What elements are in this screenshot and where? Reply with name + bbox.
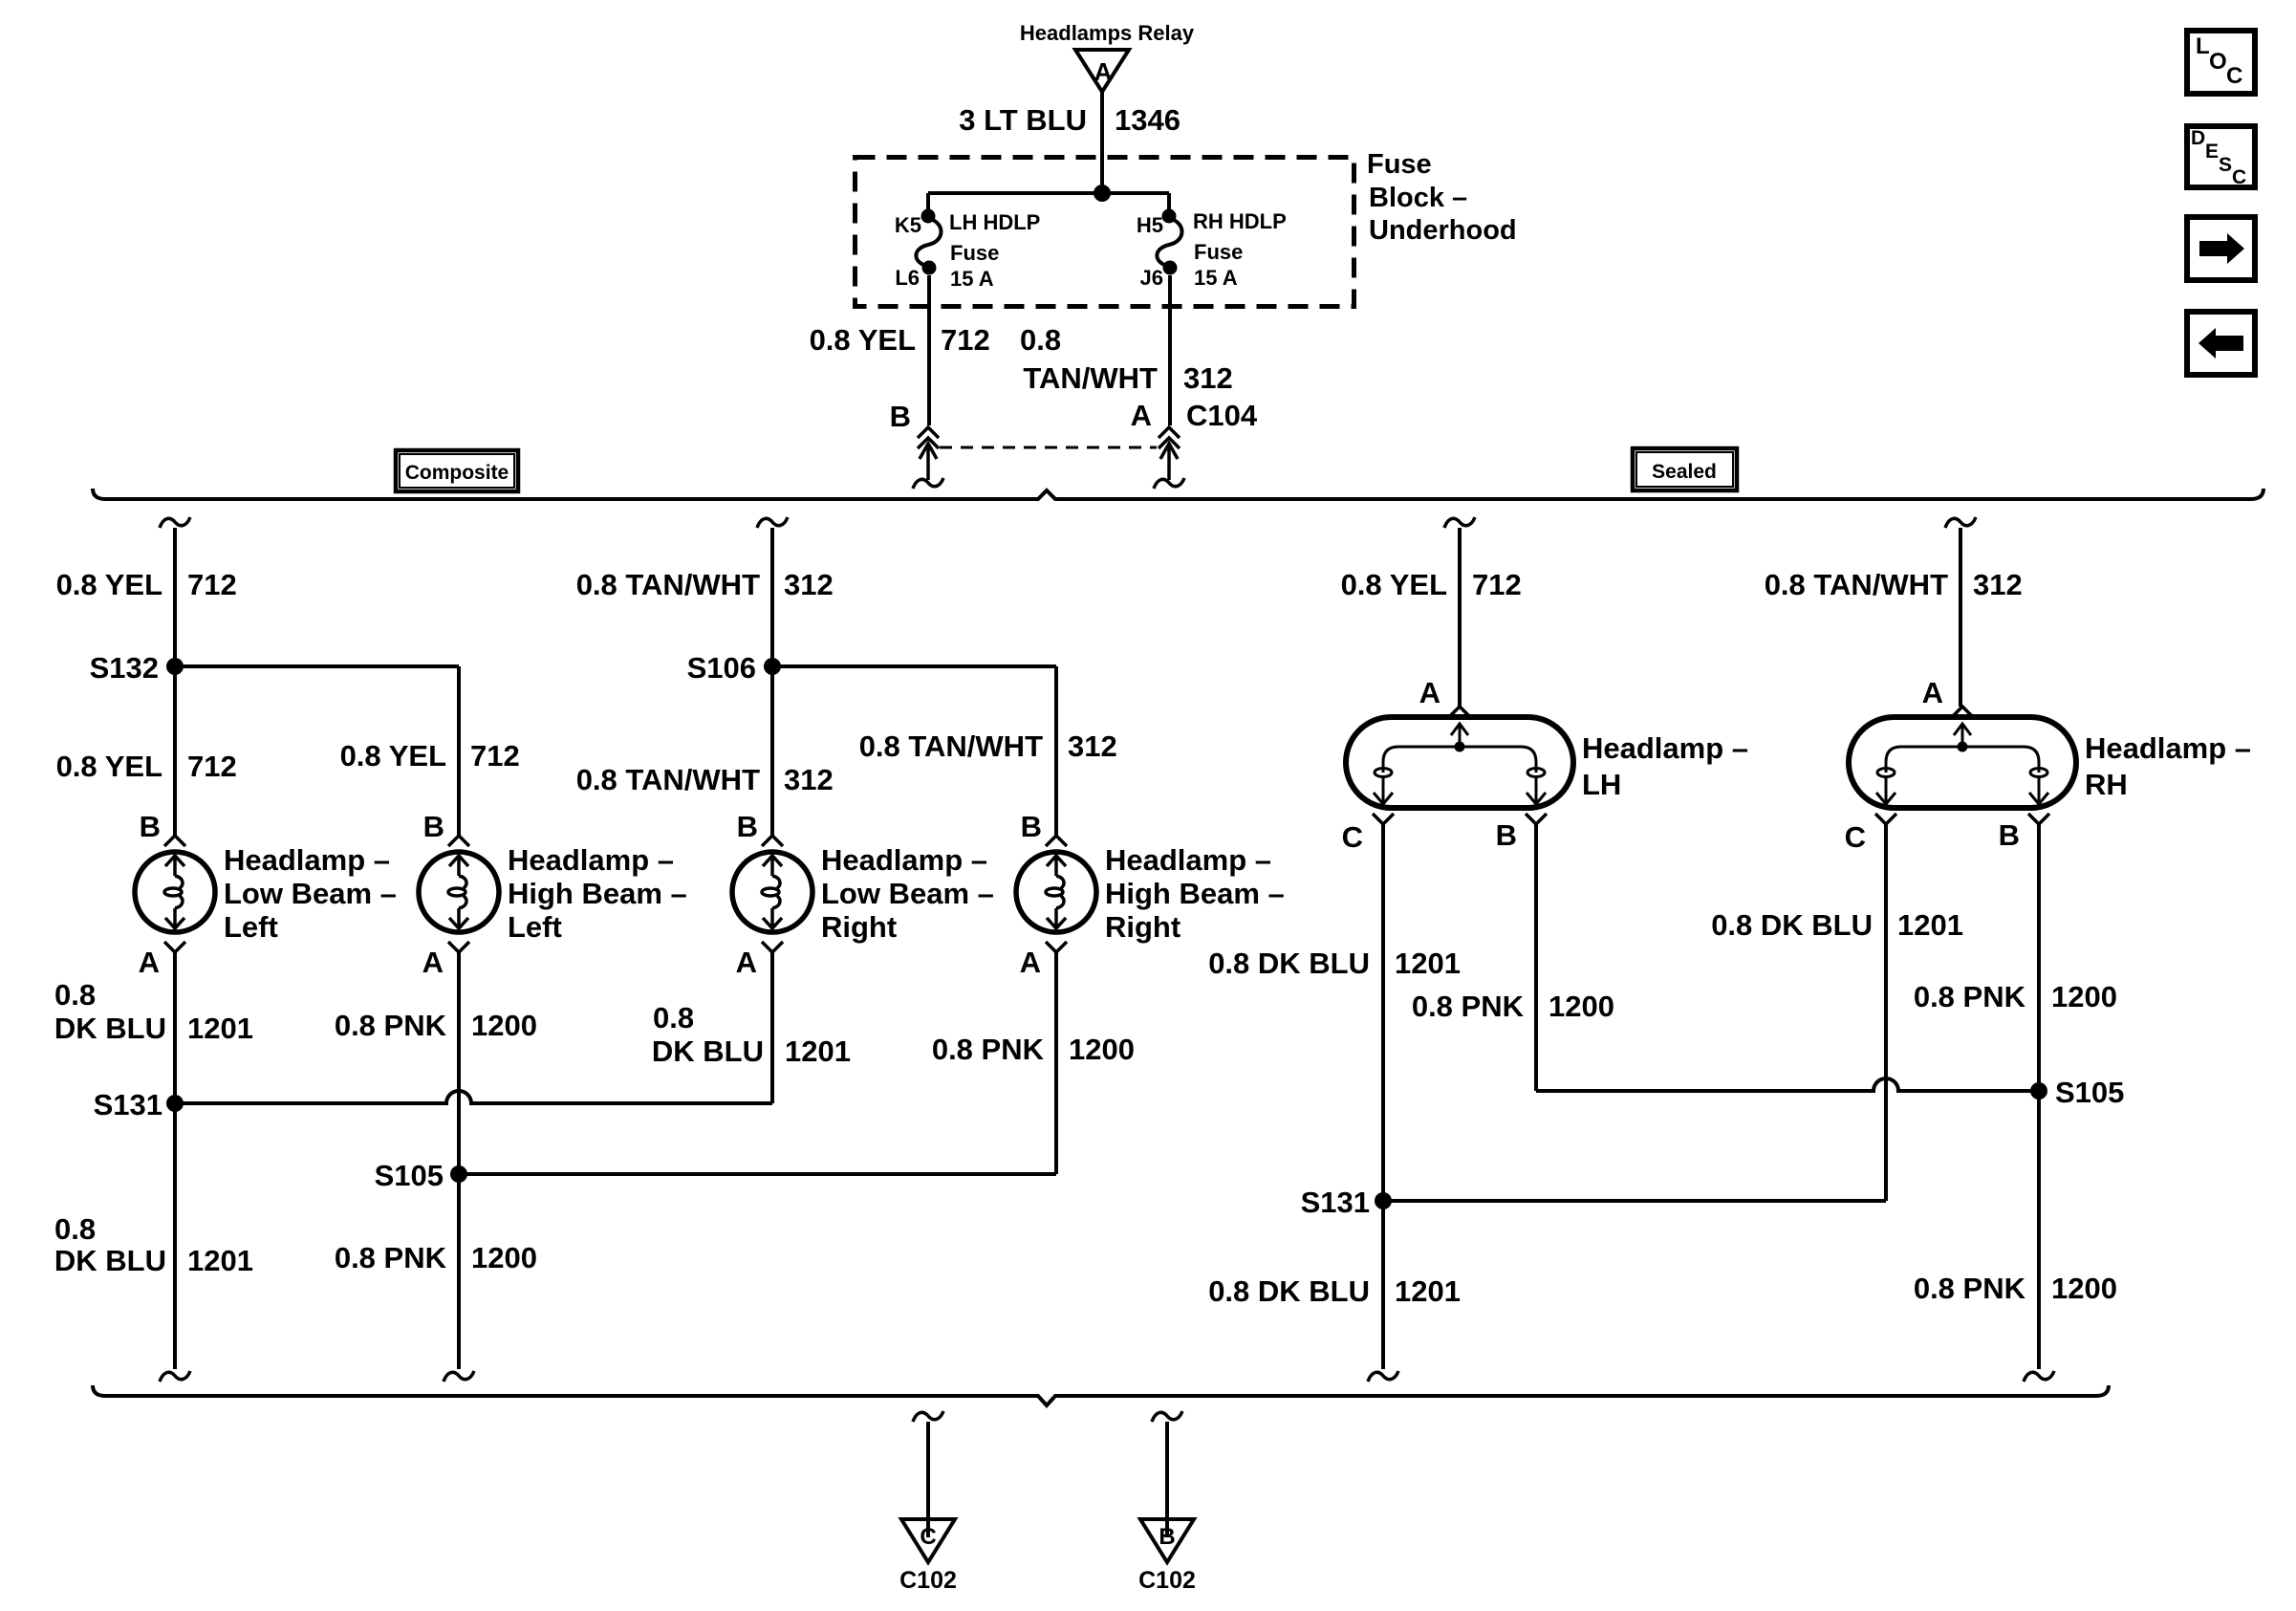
value label "LH HDLP Fuse 15 A" [949,210,1040,291]
svg-text:D: D [2191,127,2205,149]
wire break at bottom of DK BLU wire [160,1371,190,1382]
svg-text:0.8 YEL: 0.8 YEL [56,750,162,783]
fuse block underhood dashed box [856,158,1354,307]
svg-text:B: B [890,400,911,433]
wire label "712" [1472,568,1522,601]
pin label "A" of sealed LH headlamp [1419,676,1440,709]
svg-text:1200: 1200 [471,1241,537,1274]
svg-text:High Beam –: High Beam – [508,877,687,910]
wire label "712" [187,568,237,601]
wire 0.8 YEL 712 down to S132 [173,528,177,666]
svg-text:Underhood: Underhood [1369,215,1517,246]
sealed beam unit: Headlamp - RH [1849,717,2076,808]
option label box "Sealed" [1633,448,1737,490]
svg-text:312: 312 [784,763,834,796]
svg-text:712: 712 [470,739,520,773]
svg-text:A: A [139,946,160,979]
component label "Headlamp – Low Beam – Right" [821,843,994,944]
svg-text:L6: L6 [895,266,920,290]
splice S105 (composite) [450,1165,467,1183]
svg-text:TAN/WHT: TAN/WHT [1023,361,1158,395]
connector chevron at pin B x=1105 [1046,836,1067,846]
svg-text:0.8 PNK: 0.8 PNK [1914,1272,2026,1305]
wire label "1201" [1897,908,1963,942]
pin H5 terminal dot [1162,209,1177,224]
connector label "C102" [1138,1567,1196,1594]
svg-text:A: A [1094,57,1113,86]
pin label "C" of sealed RH headlamp [1845,820,1866,854]
wire label "312" [784,763,834,796]
svg-text:Block –: Block – [1369,183,1467,213]
wire label "0.8 DK BLU" [1208,1274,1370,1308]
wire 0.8 TAN/WHT 312 from fuse J6 to connector A [1168,275,1172,425]
wire 0.8 PNK 1200 from S105 to C102 [457,1174,461,1369]
svg-text:312: 312 [1183,361,1233,395]
pin label "B" [890,400,911,433]
wire break at bottom of sealed DK BLU wire [1368,1371,1398,1382]
svg-text:C102: C102 [1138,1567,1196,1594]
svg-text:1201: 1201 [1395,1274,1461,1308]
svg-text:S131: S131 [1301,1186,1370,1219]
svg-text:0.8: 0.8 [1020,323,1061,357]
pin label "L6" [895,266,920,290]
svg-text:C: C [1342,820,1363,854]
wire 0.8 PNK 1200 from sealed S105 to C102 [2037,1091,2041,1369]
component label "Headlamp - LH" [1582,731,1748,801]
connector chevron at pin A x=183 [164,942,185,952]
ground-style connector triangle B (C102) [1140,1519,1194,1562]
splice label "S131" [1301,1186,1370,1219]
pin label "B" of LowLeft lamp [140,810,161,843]
svg-text:DK BLU: DK BLU [652,1034,764,1068]
wire label "312" [1973,568,2023,601]
wire label "1201" [187,1012,253,1045]
wire: S105 tie to high beam right [459,1172,1056,1176]
svg-text:S106: S106 [687,651,756,685]
wire: S106 branch to high beam right [772,666,1056,836]
wire label "1201" [1395,1274,1461,1308]
sealed beam unit: Headlamp - LH [1346,717,1573,808]
component label "Headlamp – Low Beam – Left" [224,843,397,944]
wire 0.8 PNK 1200 sealed LH pin B to S105 [1534,824,1538,1091]
svg-text:0.8 TAN/WHT: 0.8 TAN/WHT [859,729,1043,763]
svg-text:B: B [1159,1524,1175,1550]
wire 0.8 DK BLU 1201 from S131 to C102 [173,1103,177,1369]
svg-text:S131: S131 [94,1088,162,1121]
button "DESC" [2187,126,2255,188]
fuse F-LH HDLP element [916,218,941,267]
svg-text:DK BLU: DK BLU [54,1012,166,1045]
svg-text:0.8: 0.8 [653,1001,694,1034]
wire break above C102 cavity C [913,1411,943,1422]
bulb: Headlamp Low Beam – Right [732,852,812,932]
pin label "K5" [895,213,921,237]
wire label "712" [470,739,520,773]
svg-text:712: 712 [1472,568,1522,601]
wire label "0.8 YEL" [810,323,916,357]
svg-text:Left: Left [508,910,562,944]
wire 0.8 YEL 712 from S132 to low beam left [173,666,177,836]
svg-text:B: B [1496,818,1517,852]
svg-text:L: L [2196,33,2210,59]
wire label "0.8 TAN/WHT" [859,729,1043,763]
svg-text:O: O [2209,49,2227,75]
pin label "B" of LowRight lamp [737,810,758,843]
wire 0.8 PNK 1200 from high beam left to S105 [457,952,461,1174]
svg-text:C102: C102 [899,1567,957,1594]
wire: drop to LH HDLP fuse pin K5 [926,193,930,214]
svg-text:C: C [1845,820,1866,854]
connector chevron at sealed RH pin C [1875,814,1896,824]
svg-text:H5: H5 [1137,213,1163,237]
pin label "A" of sealed RH headlamp [1922,676,1943,709]
wire 0.8 YEL 712 to sealed LH headlamp [1458,528,1462,707]
pin label "A" of LowLeft lamp [139,946,160,979]
svg-text:A: A [1922,676,1943,709]
svg-text:S105: S105 [2055,1076,2124,1109]
svg-text:Composite: Composite [405,462,509,484]
connector chevron at sealed LH pin A [1449,707,1470,717]
svg-text:0.8 YEL: 0.8 YEL [56,568,162,601]
pin label "B" of sealed RH headlamp [1999,818,2020,852]
svg-text:0.8 DK BLU: 0.8 DK BLU [1208,947,1370,980]
svg-text:712: 712 [187,568,237,601]
svg-text:Right: Right [821,910,897,944]
svg-text:312: 312 [784,568,834,601]
pin label "B" of sealed LH headlamp [1496,818,1517,852]
wire 0.8 DK BLU 1201 sealed LH pin C to S131 [1381,824,1385,1201]
svg-text:0.8 DK BLU: 0.8 DK BLU [1711,908,1873,942]
svg-text:A: A [1020,946,1041,979]
svg-text:0.8 DK BLU: 0.8 DK BLU [1208,1274,1370,1308]
wire break (resume) on 712 YEL branch [160,517,190,528]
svg-text:A: A [1419,676,1440,709]
svg-text:Low Beam –: Low Beam – [821,877,994,910]
connector chevron at pin A x=480 [448,942,469,952]
svg-text:K5: K5 [895,213,921,237]
wire label "312" [1183,361,1233,395]
svg-text:A: A [736,946,757,979]
button "next" (right arrow) [2187,217,2255,280]
svg-text:A: A [422,946,444,979]
component label "Headlamp – High Beam – Left" [508,843,687,944]
wire 0.8 DK BLU 1201 from low beam right down [770,952,774,1103]
svg-text:E: E [2205,141,2219,163]
wire label "0.8 PNK" [1412,990,1525,1023]
wire 0.8 DK BLU 1201 from sealed S131 to C102 [1381,1201,1385,1369]
wire: drop to RH HDLP fuse pin H5 [1167,193,1171,214]
harness brace (bottom) [93,1385,2109,1405]
wire label "712" [187,750,237,783]
pin L6 terminal dot [922,261,937,275]
wire label "0.8 PNK" [335,1241,447,1274]
svg-text:Headlamp –: Headlamp – [508,843,674,877]
wire 0.8 DK BLU 1201 from low beam left to S131 [173,952,177,1103]
button "back" (left arrow) [2187,312,2255,375]
svg-text:RH: RH [2085,768,2128,801]
wire label "1200" [1069,1033,1135,1066]
connector C104 dashed boundary [940,446,1157,449]
wire label "0.8 DK BLU" [1711,908,1873,942]
svg-text:15 A: 15 A [950,267,994,291]
button "LOC" [2187,31,2255,94]
connector label "C104" [1186,399,1258,432]
wire label "1200" [2051,980,2117,1013]
svg-text:LH HDLP: LH HDLP [949,210,1040,234]
bulb: Headlamp High Beam – Left [419,852,499,932]
svg-text:1200: 1200 [1069,1033,1135,1066]
svg-text:0.8 PNK: 0.8 PNK [1412,990,1525,1023]
svg-text:0.8 PNK: 0.8 PNK [932,1033,1045,1066]
svg-text:0.8 PNK: 0.8 PNK [335,1009,447,1042]
connector chevron at pin B x=183 [164,836,185,846]
pin J6 terminal dot [1163,261,1178,275]
svg-text:C104: C104 [1186,399,1258,432]
pin K5 terminal dot [921,209,936,224]
svg-text:J6: J6 [1140,266,1163,290]
splice label "S132" [90,651,159,685]
svg-text:B: B [140,810,161,843]
bulb: Headlamp High Beam – Right [1016,852,1096,932]
pin label "A" of LowRight lamp [736,946,757,979]
wire label "3 LT BLU" [959,103,1087,137]
wire label "0.8 PNK" [1914,980,2026,1013]
svg-text:DK BLU: DK BLU [54,1244,166,1277]
svg-text:0.8 TAN/WHT: 0.8 TAN/WHT [576,763,760,796]
svg-text:Fuse: Fuse [1194,240,1243,264]
svg-text:15 A: 15 A [1194,266,1238,290]
svg-text:RH HDLP: RH HDLP [1193,209,1287,233]
svg-text:1346: 1346 [1115,103,1180,137]
connector chevron at pin B x=808 [762,836,783,846]
wire label "0.8 TAN/WHT" [1765,568,1948,601]
wire label "0.8 YEL" [56,568,162,601]
wire 0.8 DK BLU 1201 sealed RH pin C down [1884,824,1888,1201]
wire 0.8 PNK 1200 from high beam right down [1054,952,1058,1174]
splice S106 [764,658,781,675]
wire label "0.8 PNK" [1914,1272,2026,1305]
wire label "1201" [785,1034,851,1068]
connector chevron at pin A x=1105 [1046,942,1067,952]
splice S131 (sealed) [1375,1192,1392,1209]
wire label "0.8 / DK BLU" [54,1212,166,1277]
svg-text:0.8 YEL: 0.8 YEL [810,323,916,357]
svg-text:0.8 YEL: 0.8 YEL [1341,568,1447,601]
component label "Headlamp – High Beam – Right" [1105,843,1285,944]
splice label "S106" [687,651,756,685]
svg-text:S132: S132 [90,651,159,685]
wire break (resume) on sealed 312 TAN/WHT [1945,517,1976,528]
component label "Headlamp - RH" [2085,731,2251,801]
power triangle A (Headlamps Relay) [1075,50,1129,92]
wire label "0.8 PNK" [335,1009,447,1042]
pin label "A" of HighRight lamp [1020,946,1041,979]
wire break at bottom of sealed PNK wire [2024,1371,2054,1382]
svg-text:C: C [2232,166,2246,188]
node: splice in fuse block feed [1094,185,1111,202]
svg-text:0.8: 0.8 [54,1212,96,1246]
wire label "1346" [1115,103,1180,137]
wire label "1200" [471,1241,537,1274]
fuse F-RH HDLP element [1157,218,1181,267]
relay label "Headlamps Relay" [1020,21,1195,45]
wire 0.8 TAN/WHT 312 from S106 to low beam right [770,666,774,836]
svg-text:712: 712 [187,750,237,783]
ground-style connector triangle C (C102) [901,1519,955,1562]
wire label "0.8 YEL" [56,750,162,783]
svg-text:1200: 1200 [471,1009,537,1042]
svg-text:Fuse: Fuse [1367,149,1432,180]
harness brace (top) [93,489,2264,499]
svg-text:1201: 1201 [1395,947,1461,980]
connector chevron at sealed RH pin A [1952,707,1973,717]
svg-text:0.8 TAN/WHT: 0.8 TAN/WHT [576,568,760,601]
svg-text:A: A [1131,399,1152,432]
wire break above C102 cavity B [1152,1411,1182,1422]
wire: fuse block bus [928,191,1169,195]
wire break at bottom of PNK wire [444,1371,474,1382]
wire to connector C102 cavity B [1165,1422,1169,1537]
splice S132 [166,658,184,675]
svg-text:3 LT BLU: 3 LT BLU [959,103,1087,137]
wire: S131 tie to low beam right (hop over x=480) [175,1091,772,1103]
svg-text:B: B [737,810,758,843]
wire label "0.8 YEL" [340,739,446,773]
wire label "1201" [1395,947,1461,980]
connector chevron at sealed RH pin B [2028,814,2049,824]
splice label "S105" [2055,1076,2124,1109]
wire label "0.8 TAN/WHT" [576,763,760,796]
wire label "1200" [471,1009,537,1042]
connector C104 cavity A symbol [1154,427,1184,489]
wire 0.8 YEL 712 from fuse L6 to connector B [927,275,931,425]
svg-text:1200: 1200 [1549,990,1614,1023]
connector chevron at sealed LH pin B [1526,814,1547,824]
pin label "B" of HighRight lamp [1021,810,1042,843]
pin label "A" [1131,399,1152,432]
svg-text:1200: 1200 [2051,980,2117,1013]
svg-text:B: B [1021,810,1042,843]
wire: S132 branch to high beam left [175,666,459,836]
svg-text:B: B [423,810,444,843]
svg-text:Headlamp –: Headlamp – [1105,843,1271,877]
splice S131 (composite) [166,1095,184,1112]
svg-text:0.8 TAN/WHT: 0.8 TAN/WHT [1765,568,1948,601]
splice S105 (sealed) [2030,1082,2047,1099]
svg-text:1201: 1201 [187,1012,253,1045]
pin label "B" of HighLeft lamp [423,810,444,843]
svg-text:Headlamp –: Headlamp – [2085,731,2251,765]
pin label "A" of HighLeft lamp [422,946,444,979]
svg-text:B: B [1999,818,2020,852]
wire label "1200" [2051,1272,2117,1305]
wire label "312" [784,568,834,601]
wire: sealed S131 tie to RH pin C [1383,1199,1886,1203]
svg-text:High Beam –: High Beam – [1105,877,1285,910]
wire 0.8 PNK 1200 sealed RH pin B to S105 [2037,824,2041,1091]
svg-text:1201: 1201 [785,1034,851,1068]
wire label "1200" [1549,990,1614,1023]
svg-text:1201: 1201 [1897,908,1963,942]
connector chevron at pin A x=808 [762,942,783,952]
wire label "0.8 / DK BLU" [54,978,166,1045]
svg-text:312: 312 [1973,568,2023,601]
svg-text:Headlamp –: Headlamp – [1582,731,1748,765]
option label box "Composite" [396,450,518,491]
svg-text:C: C [920,1524,936,1550]
splice label "S131" [94,1088,162,1121]
wire break (resume) on sealed 712 YEL [1444,517,1475,528]
wire 3 LT BLU 1346 from relay to fuse block [1100,92,1104,193]
pin label "J6" [1140,266,1163,290]
wire 0.8 TAN/WHT 312 down to S106 [770,528,774,666]
wire label "0.8 PNK" [932,1033,1045,1066]
wire label "312" [1068,729,1117,763]
svg-text:0.8 PNK: 0.8 PNK [335,1241,447,1274]
pin label "C" of sealed LH headlamp [1342,820,1363,854]
svg-text:312: 312 [1068,729,1117,763]
connector chevron at sealed LH pin C [1373,814,1394,824]
svg-text:1200: 1200 [2051,1272,2117,1305]
component label "Fuse Block - Underhood" [1367,149,1517,246]
svg-text:0.8: 0.8 [54,978,96,1012]
svg-text:1201: 1201 [187,1244,253,1277]
svg-text:Fuse: Fuse [950,241,999,265]
pin label "H5" [1137,213,1163,237]
svg-text:Sealed: Sealed [1652,461,1717,483]
wire break (resume) on 312 TAN/WHT branch [757,517,788,528]
wire label "0.8 / DK BLU" [652,1001,764,1068]
wire label "712" [941,323,990,357]
svg-text:Left: Left [224,910,278,944]
svg-text:S105: S105 [375,1159,444,1192]
svg-text:C: C [2226,63,2242,89]
svg-text:Right: Right [1105,910,1180,944]
splice label "S105" [375,1159,444,1192]
svg-text:Headlamps Relay: Headlamps Relay [1020,21,1195,45]
wire label "0.8 DK BLU" [1208,947,1370,980]
wire label "1201" [187,1244,253,1277]
svg-text:Headlamp –: Headlamp – [821,843,987,877]
svg-text:S: S [2219,154,2232,176]
wire 0.8 TAN/WHT 312 to sealed RH headlamp [1959,528,1962,707]
connector chevron at pin B x=480 [448,836,469,846]
bulb: Headlamp Low Beam – Left [135,852,215,932]
wire: sealed S105 tie LH pin B to RH pin B (hop over x=1973) [1536,1078,2039,1091]
svg-text:0.8 PNK: 0.8 PNK [1914,980,2026,1013]
wire label "0.8 YEL" [1341,568,1447,601]
wire label "0.8 TAN/WHT" (two lines) [1020,323,1158,395]
svg-text:712: 712 [941,323,990,357]
svg-text:Low Beam –: Low Beam – [224,877,397,910]
svg-text:0.8 YEL: 0.8 YEL [340,739,446,773]
svg-text:Headlamp –: Headlamp – [224,843,390,877]
wire label "0.8 TAN/WHT" [576,568,760,601]
svg-text:LH: LH [1582,768,1621,801]
connector C104 cavity B symbol [913,427,943,489]
connector label "C102" [899,1567,957,1594]
value label "RH HDLP Fuse 15 A" [1193,209,1287,290]
wire to connector C102 cavity C [926,1422,930,1537]
